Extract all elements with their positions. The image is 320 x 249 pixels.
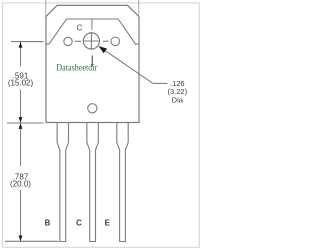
extension stub above right edge (138, 0, 140, 16)
small hole left (64, 37, 72, 45)
svg-text:Dia: Dia (172, 96, 184, 105)
package body outline (46, 5, 139, 122)
hole leader arrowhead (99, 46, 108, 53)
mounting hole (83, 33, 99, 49)
svg-text:(20.0): (20.0) (10, 179, 31, 188)
extension line lead tips (5, 240, 59, 242)
arrow up at package bottom (19, 123, 23, 129)
dim line .591 upper segment (20, 42, 22, 67)
inner raised step (hat) (46, 19, 139, 44)
border frame (2, 3, 199, 247)
center line dash right (103, 40, 109, 42)
hole leader horizontal (153, 82, 168, 84)
center line dash below hole (91, 56, 93, 67)
extension line package bottom (7, 122, 44, 124)
svg-text:C: C (76, 218, 82, 227)
pin mark circle bottom (88, 104, 97, 113)
svg-text:B: B (45, 218, 51, 227)
extension stub above left edge (45, 0, 47, 16)
lead C (87, 123, 98, 242)
small hole right (111, 37, 120, 46)
svg-text:E: E (105, 218, 110, 227)
svg-text:(15.02): (15.02) (8, 79, 34, 88)
arrow up at hole-center line (19, 42, 23, 48)
dim line .591 lower segment (20, 90, 22, 124)
arrow down at lead tips (19, 236, 23, 242)
extension line hole center (11, 41, 44, 43)
center line dash left (75, 40, 81, 42)
lead B (57, 123, 68, 242)
vertical center line upper (91, 19, 93, 30)
svg-text:Datasheetdir: Datasheetdir (56, 63, 97, 73)
svg-text:C: C (77, 23, 83, 32)
dim line .787 lower segment (20, 190, 22, 242)
dim line .787 upper segment (20, 123, 22, 166)
lead E (117, 123, 128, 242)
crosshair vertical (90, 32, 92, 50)
crosshair horizontal (83, 40, 100, 42)
arrow down at package bottom (19, 117, 23, 123)
hole leader diagonal (99, 47, 153, 84)
